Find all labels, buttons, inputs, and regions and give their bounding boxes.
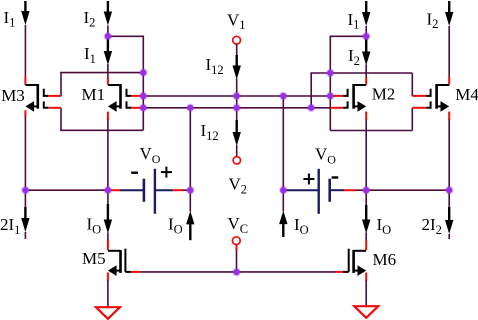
battery VO right: lead from short plate — [330, 189, 344, 191]
wire: left box left side lower segment — [60, 108, 62, 131]
node: right rail at M4 source / 2I2 — [445, 186, 453, 194]
node: I2/gate-bus node (left inner top) — [104, 32, 112, 40]
wire: M2 gate node vertical — [329, 73, 331, 131]
node: rail B at V2 column — [233, 104, 241, 112]
wire: VC down to gate rail — [236, 244, 238, 250]
wire: jog from left node to M1 gate node — [108, 36, 143, 72]
current arrow I2 (top, into node) — [107, 1, 109, 13]
svg-text:M4: M4 — [455, 85, 478, 104]
battery VO left: short negative plate — [143, 179, 146, 202]
battery VO left: long positive plate — [154, 169, 156, 214]
current arrow 2I1 (below left rail) — [24, 190, 26, 208]
terminal V2 — [233, 157, 240, 164]
battery VO right: long positive plate — [318, 169, 320, 214]
node: rail A at right drop — [279, 92, 287, 100]
node: VC on gate rail — [232, 268, 240, 276]
wire: V1 down to rail A with current arrow I12 — [236, 44, 238, 56]
node: rail B at left drop — [186, 104, 194, 112]
ground (right) — [354, 306, 378, 318]
wire: left box bottom — [60, 129, 143, 131]
current arrow I2 (top right) — [448, 1, 450, 13]
node: rail B at M1 gate — [139, 104, 147, 112]
ground (left) — [96, 307, 120, 319]
svg-text:M2: M2 — [372, 85, 396, 104]
wire: M1 source down to left rail — [107, 112, 109, 120]
node: right rail left end IO — [279, 186, 287, 194]
minus sign (left battery) — [131, 171, 138, 173]
wire: VC gate rail right to M6 — [237, 271, 337, 273]
plus sign (left battery) — [161, 171, 172, 173]
wire: M3 source down to left rail — [24, 110, 26, 117]
wire: right box bottom — [330, 130, 412, 132]
wire: right box right side lower segment — [411, 108, 413, 131]
wire: right box right side upper segment — [411, 73, 413, 96]
svg-text:M1: M1 — [82, 85, 106, 104]
wire: right outer vertical I2 input into M4 drain — [448, 26, 450, 78]
battery VO left: red pin segment right — [173, 189, 184, 191]
node: right rail at M2 source / IO — [362, 186, 370, 194]
wire: M5 source to ground — [107, 273, 109, 282]
wire: M6 source to ground — [365, 273, 367, 282]
wire: corner drop from right box top to rail B — [310, 73, 312, 108]
battery VO left: lead from long plate — [155, 189, 173, 191]
wire: left output rail segment — [25, 189, 110, 191]
node: rail A at M1 gate — [139, 92, 147, 100]
wire: left inner vertical from top to node — [107, 26, 109, 37]
wire: M1 gate node vertical — [142, 73, 144, 131]
svg-text:M6: M6 — [373, 250, 397, 269]
wire: right output rail segment to 2I2 node — [366, 189, 449, 191]
node: I1/gate-bus node (right inner top) — [362, 32, 370, 40]
svg-text:M5: M5 — [82, 249, 106, 268]
wire: M2 source down to right rail — [365, 112, 367, 120]
node: M2 gate node at box top — [326, 69, 334, 77]
wire: rail B (bottom gate rail) — [143, 107, 330, 109]
node: rail A at V1 column — [233, 92, 241, 100]
transistor M4 — [437, 84, 450, 86]
node: rail B at corner drop — [307, 104, 315, 112]
current arrow 2I2 (below right rail) — [448, 190, 450, 208]
current arrow I1 (top left) — [24, 1, 26, 12]
transistor M5 — [108, 250, 121, 252]
transistor M6 — [354, 250, 367, 252]
battery VO left: lead to short plate — [120, 189, 143, 191]
wire: right output rail from IO node to battery — [283, 189, 318, 191]
wire: left box top (gate bus M3-M1) — [60, 72, 143, 74]
wire: rail A (top gate rail) — [143, 95, 330, 97]
transistor M1 — [108, 84, 121, 86]
wire: left box left side upper segment — [60, 73, 62, 96]
current arrow I2 into M2 drain — [365, 39, 367, 53]
battery VO right: red pin segment — [344, 189, 357, 191]
current arrow I1 into M1 drain — [107, 38, 109, 52]
wire: rail-A drop to right output rail — [282, 96, 284, 190]
node: left rail at M1 source / IO — [104, 186, 112, 194]
node: M1 gate node at box top — [139, 68, 147, 76]
current arrow IO into M5 drain — [107, 190, 109, 205]
battery VO left: red pin segment — [110, 189, 121, 191]
wire: right box top (gate bus M2-M4) — [310, 72, 412, 74]
wire: rail-B drop to left output rail — [189, 108, 191, 190]
wire: left outer vertical I1 input, top segment into M3 drain — [24, 25, 26, 77]
minus sign (right battery) — [332, 176, 339, 178]
wire: right inner vertical from top to node — [365, 26, 367, 36]
node: left rail at M3 source — [21, 186, 29, 194]
battery VO right: short negative plate — [328, 179, 331, 202]
wire: to IO node — [183, 189, 190, 191]
current arrow I1 (top, into right node) — [365, 1, 367, 13]
node: rail A at M2 gate — [326, 92, 334, 100]
svg-text:M3: M3 — [1, 86, 25, 105]
transistor M3 — [25, 84, 37, 86]
node: left rail right end IO — [186, 186, 194, 194]
wire: M4 source down to right rail — [448, 112, 450, 120]
wire: jog from right node to M2 gate node — [330, 36, 366, 73]
wire: VC gate rail left to M5 — [140, 271, 237, 273]
plus sign (right battery) — [303, 178, 314, 180]
wire: to M6 drain node — [356, 189, 367, 191]
transistor M2 — [354, 84, 367, 86]
wire: rail B down to V2 with current arrow I12 — [236, 108, 238, 121]
wire: center between rail A and rail B — [236, 96, 238, 108]
current arrow IO into M6 drain — [365, 190, 367, 206]
current arrow IO (up, right of center) — [282, 190, 284, 211]
terminal VC — [232, 237, 240, 245]
terminal V1 — [233, 36, 241, 44]
current arrow IO (up, left of center) — [189, 190, 191, 211]
